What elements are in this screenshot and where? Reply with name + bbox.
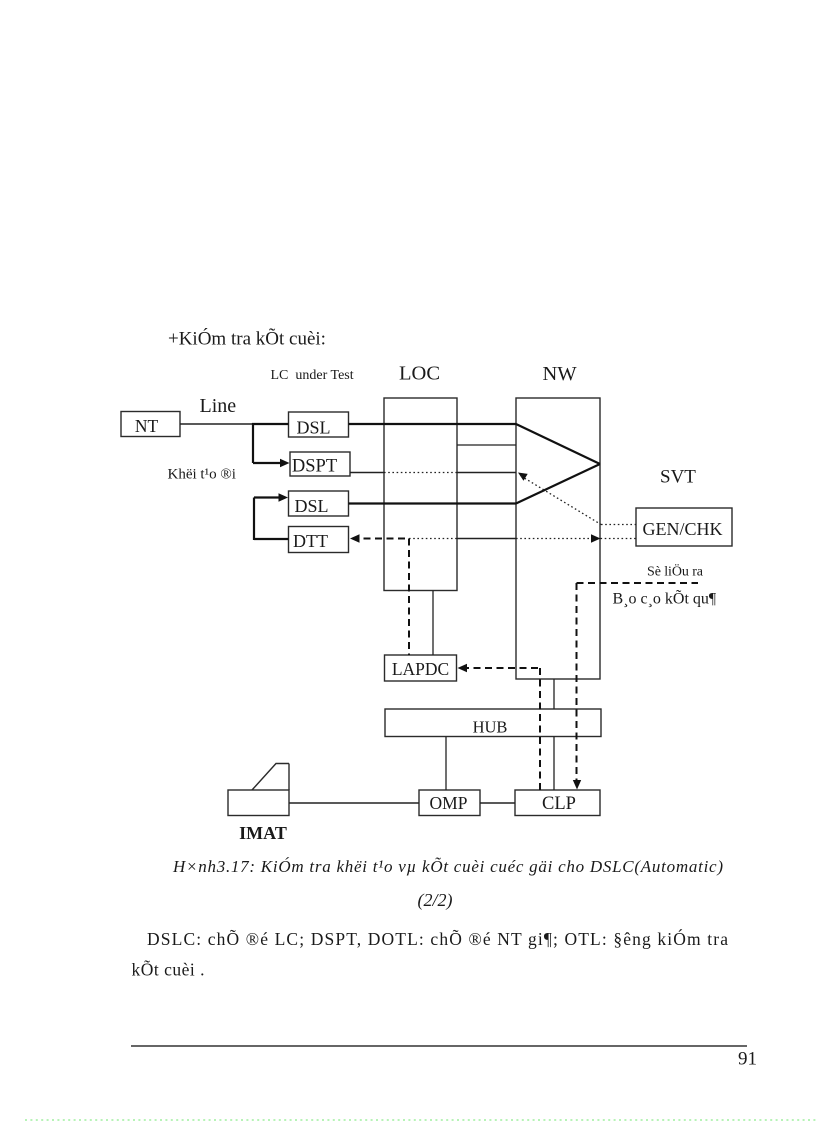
svg-text:B¸o c¸o kÕt qu¶: B¸o c¸o kÕt qu¶: [613, 590, 717, 608]
svg-text:+KiÓm tra kÕt cuèi:: +KiÓm tra kÕt cuèi:: [168, 328, 326, 350]
footer rule: [131, 1045, 747, 1047]
box NW: [516, 398, 600, 679]
box HUB: [385, 709, 601, 737]
wire dashed report horizontal: [577, 582, 699, 584]
wire OMP to CLP: [480, 802, 515, 804]
wire dotted into GEN/CHK upper: [601, 524, 636, 526]
arrow into DSL lower: [279, 493, 289, 501]
svg-text:LAPDC: LAPDC: [392, 659, 449, 679]
wire NW upper diagonal: [516, 424, 600, 464]
svg-text:DSLC: chÕ ®é LC; DSPT, DOTL: c: DSLC: chÕ ®é LC; DSPT, DOTL: chÕ ®é NT g…: [147, 929, 728, 949]
svg-text:CLP: CLP: [542, 794, 576, 814]
wire DSPT solid to LOC: [350, 472, 384, 474]
arrow into DTT: [350, 534, 360, 542]
box GEN/CHK: [636, 508, 732, 546]
wire dotted corner to LOC right: [409, 538, 457, 540]
svg-text:OMP: OMP: [430, 793, 468, 813]
wire dotted NW to GEN/CHK lower: [601, 538, 637, 540]
box LOC: [384, 398, 457, 591]
wire dotted inside NW at DTT level: [516, 538, 591, 540]
wire bracket horizontal to DSPT: [253, 462, 283, 464]
box DSL (upper): [289, 412, 349, 437]
wire junction to DSL upper: [252, 423, 289, 425]
svg-text:(2/2): (2/2): [418, 890, 453, 911]
box LAPDC: [385, 655, 457, 681]
wire solid LOC bottom to LAPDC: [432, 591, 434, 656]
arrow at NW left on DSPT path: [518, 473, 528, 481]
page break dotted green: [25, 1119, 816, 1121]
svg-text:IMAT: IMAT: [239, 823, 287, 843]
wire DTT to bracket: [254, 538, 289, 540]
svg-text:LC under Test: LC under Test: [271, 368, 354, 383]
wire bracket vertical DTT-DSL: [253, 498, 255, 541]
svg-text:SVT: SVT: [660, 467, 696, 488]
wire dashed LAPDC to CLP riser: [462, 667, 540, 669]
svg-text:DSL: DSL: [294, 496, 328, 516]
wire dotted diagonal to GEN/CHK: [521, 476, 601, 525]
svg-text:Khëi t¹o ®i: Khëi t¹o ®i: [168, 467, 236, 483]
wire dashed DTT to corner: [352, 538, 409, 540]
svg-text:DTT: DTT: [293, 531, 328, 551]
wire solid LOC to NW at DTT level: [457, 538, 516, 540]
svg-text:Sè liÖu ra: Sè liÖu ra: [647, 563, 704, 580]
terminal IMAT: [228, 790, 289, 816]
wire dashed report vertical: [576, 583, 578, 781]
wire dashed vertical CLP to LAPDC: [539, 668, 541, 790]
arrow into DSPT: [280, 459, 290, 467]
wire dashed vertical to LAPDC: [408, 539, 410, 656]
svg-text:NW: NW: [543, 363, 578, 385]
svg-text:kÕt cuèi .: kÕt cuèi .: [132, 960, 205, 980]
wire NT to junction: [180, 423, 254, 425]
box DSPT: [290, 452, 350, 476]
wire bracket vertical to DSPT: [252, 423, 254, 463]
svg-text:H×nh3.17: KiÓm tra khëi t¹o vµ: H×nh3.17: KiÓm tra khëi t¹o vµ kÕt cuèi …: [172, 857, 723, 876]
wire HUB to CLP: [553, 737, 555, 791]
wire LOC to NW thin: [457, 444, 516, 446]
wire NW lower diagonal: [516, 464, 600, 504]
wire DSL upper to NW (bold): [349, 423, 517, 425]
svg-text:DSL: DSL: [296, 418, 330, 438]
box DSL (lower): [289, 491, 349, 516]
arrow right at NW right edge: [591, 534, 601, 542]
svg-text:NT: NT: [135, 416, 159, 436]
svg-text:HUB: HUB: [473, 718, 508, 737]
wire bracket horizontal to DSL lower: [254, 496, 281, 498]
wire DSPT solid LOC to NW: [457, 472, 516, 474]
wire NW bottom to HUB: [553, 679, 555, 709]
wire DSL lower to NW (bold): [349, 502, 517, 504]
wire IMAT to OMP: [289, 802, 419, 804]
arrow into CLP: [573, 780, 581, 790]
wire HUB to OMP: [445, 737, 447, 791]
arrow into LAPDC: [458, 664, 468, 672]
svg-text:GEN/CHK: GEN/CHK: [643, 519, 723, 539]
svg-text:DSPT: DSPT: [292, 457, 337, 477]
wire DSPT dotted inside LOC: [384, 472, 457, 474]
box DTT: [289, 527, 349, 553]
svg-text:91: 91: [738, 1049, 757, 1070]
box OMP: [419, 790, 480, 816]
svg-text:LOC: LOC: [399, 363, 440, 385]
svg-text:Line: Line: [200, 395, 237, 417]
box CLP: [515, 790, 600, 816]
box NT: [121, 412, 180, 437]
